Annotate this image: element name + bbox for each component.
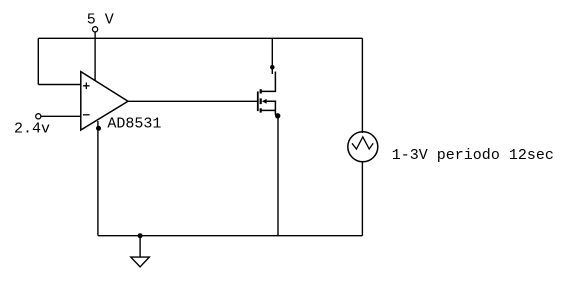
junction dot at source node	[275, 113, 280, 118]
transistor M1 body arrow	[262, 99, 267, 104]
wire op-amp output to MOSFET gate	[128, 100, 258, 102]
wire op-amp inverting input	[41, 115, 81, 117]
wire right branch bottom vertical	[361, 162, 363, 236]
junction dot at ground tap	[138, 233, 143, 238]
wire op-amp non-inverting input	[38, 84, 81, 86]
transistor M1 source lead	[261, 109, 276, 111]
transistor M1 gate bar	[257, 91, 259, 111]
transistor M1 channel bottom segment	[260, 108, 262, 112]
transistor M1 channel middle segment	[260, 98, 262, 104]
wire op-amp V- pin down to ground rail	[97, 121, 99, 236]
svg-text:5 V: 5 V	[87, 11, 114, 28]
svg-text:AD8531: AD8531	[107, 116, 161, 133]
ground symbol triangle	[131, 257, 150, 267]
node 2.4v input terminal circle	[36, 114, 41, 119]
source V1 circle	[348, 132, 378, 162]
wire drain to top rail	[271, 38, 273, 74]
wire source down to ground rail	[277, 116, 279, 236]
source V1 triangle-wave glyph	[352, 137, 373, 149]
transistor M1 drain lead	[261, 72, 276, 92]
junction dot on drain wire	[270, 65, 275, 70]
transistor M1 channel top segment	[260, 89, 262, 93]
wire top rail from feedback corner to top-right corner	[38, 37, 362, 39]
node 5V terminal circle	[93, 27, 98, 32]
wire left feedback vertical	[37, 38, 39, 84]
wire right branch top vertical	[361, 38, 363, 133]
transistor M1 body lead	[266, 101, 276, 115]
wire ground stub	[139, 236, 141, 257]
op-amp plus sign	[83, 83, 90, 90]
op-amp minus sign	[83, 114, 90, 116]
op-amp U1 AD8531 triangle body	[81, 72, 128, 130]
svg-text:2.4v: 2.4v	[14, 121, 50, 138]
wire bottom ground rail	[98, 235, 362, 237]
junction dot at op-amp V- pin	[96, 126, 101, 131]
wire 5V supply to op-amp V+ pin	[94, 32, 96, 81]
svg-text:1-3V periodo 12sec: 1-3V periodo 12sec	[392, 147, 554, 164]
